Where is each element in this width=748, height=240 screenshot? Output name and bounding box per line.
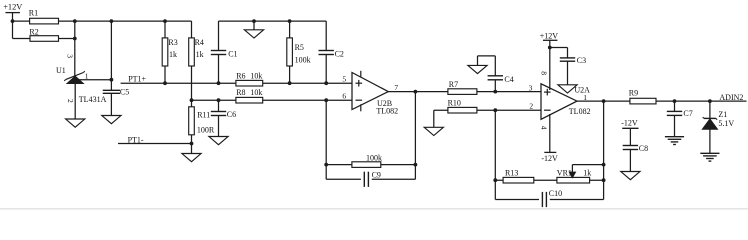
svg-text:R4: R4 <box>195 38 204 47</box>
svg-text:3: 3 <box>529 83 533 92</box>
svg-text:2: 2 <box>66 99 75 103</box>
svg-text:-12V: -12V <box>541 154 558 163</box>
svg-text:U2A: U2A <box>574 86 590 95</box>
svg-text:1k: 1k <box>196 50 204 59</box>
svg-text:Z1: Z1 <box>718 110 727 119</box>
svg-text:C1: C1 <box>228 49 237 58</box>
svg-text:R9: R9 <box>629 89 638 98</box>
svg-text:100k: 100k <box>366 154 382 163</box>
svg-text:3: 3 <box>66 54 75 58</box>
svg-text:C3: C3 <box>577 56 586 65</box>
svg-text:R1: R1 <box>29 8 38 17</box>
svg-text:C6: C6 <box>227 110 236 119</box>
svg-text:TL431A: TL431A <box>79 95 107 104</box>
svg-text:10k: 10k <box>250 71 262 80</box>
svg-text:R13: R13 <box>505 168 518 177</box>
svg-text:+12V: +12V <box>3 3 22 12</box>
svg-text:R3: R3 <box>168 38 177 47</box>
svg-text:2: 2 <box>529 102 533 111</box>
svg-text:C9: C9 <box>372 170 381 179</box>
svg-text:5: 5 <box>342 74 346 83</box>
svg-text:5.1V: 5.1V <box>718 119 734 128</box>
svg-text:+12V: +12V <box>540 31 559 40</box>
svg-text:100k: 100k <box>295 56 311 65</box>
svg-text:1k: 1k <box>583 168 591 177</box>
svg-text:C4: C4 <box>504 75 513 84</box>
svg-text:C10: C10 <box>549 189 562 198</box>
svg-text:-12V: -12V <box>621 119 638 128</box>
svg-text:8: 8 <box>540 71 549 75</box>
svg-text:1k: 1k <box>169 50 177 59</box>
svg-text:C8: C8 <box>639 144 648 153</box>
svg-text:U1: U1 <box>56 66 66 75</box>
svg-text:TL082: TL082 <box>376 107 398 116</box>
svg-text:R7: R7 <box>449 80 458 89</box>
svg-text:10k: 10k <box>250 88 262 97</box>
svg-text:100R: 100R <box>197 126 215 135</box>
svg-text:R5: R5 <box>295 43 304 52</box>
svg-text:VR1: VR1 <box>557 168 572 177</box>
svg-text:C7: C7 <box>683 109 692 118</box>
svg-text:R8: R8 <box>236 88 245 97</box>
svg-text:C2: C2 <box>335 49 344 58</box>
svg-text:R2: R2 <box>29 27 38 36</box>
svg-text:7: 7 <box>394 83 398 92</box>
svg-text:R6: R6 <box>236 71 245 80</box>
svg-text:1: 1 <box>85 72 89 81</box>
svg-text:ADIN2: ADIN2 <box>719 93 743 102</box>
svg-text:R11: R11 <box>197 111 210 120</box>
svg-text:6: 6 <box>342 91 346 100</box>
svg-text:TL082: TL082 <box>569 107 591 116</box>
svg-text:C5: C5 <box>120 87 129 96</box>
svg-text:PT1+: PT1+ <box>128 75 146 84</box>
svg-text:R10: R10 <box>448 99 461 108</box>
svg-text:4: 4 <box>540 126 549 130</box>
svg-text:PT1-: PT1- <box>128 135 144 144</box>
